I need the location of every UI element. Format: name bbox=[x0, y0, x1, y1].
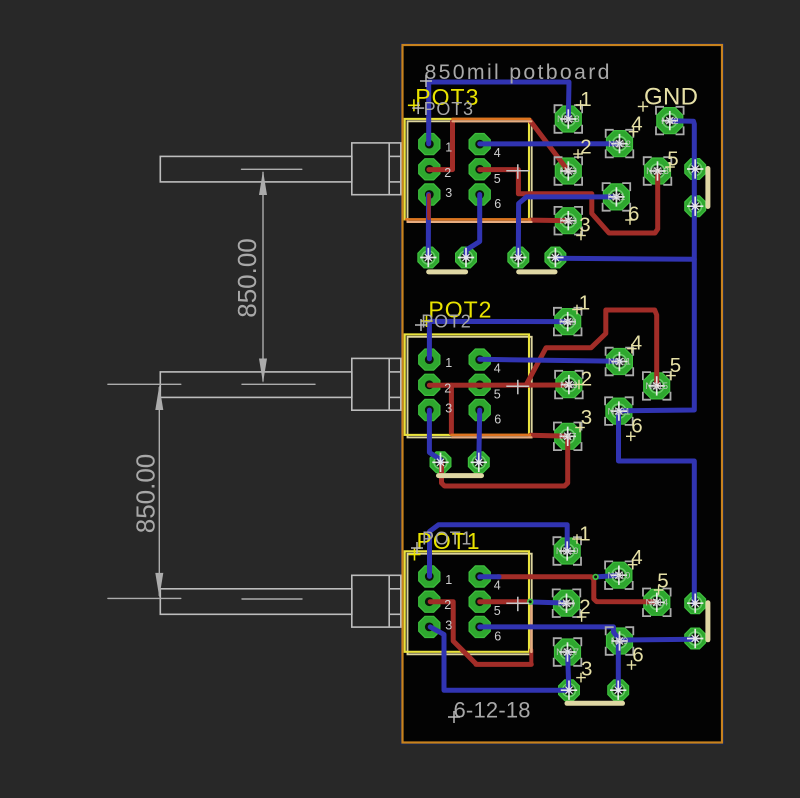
origin bracket POT1 pad 4 bbox=[605, 561, 633, 589]
wire blue POT1 pad3 to bottom pad A bbox=[430, 627, 569, 690]
drill cross POT2 pad 1 bbox=[560, 312, 576, 331]
POT2 pad 4 bbox=[469, 349, 490, 370]
dim2 extension line bottom bbox=[108, 597, 181, 599]
via at POT1 pad5 junction bbox=[527, 599, 533, 605]
POT1 right pad upper bbox=[685, 593, 706, 614]
svg-text:5: 5 bbox=[494, 387, 501, 401]
wire red POT1 bottom run bbox=[476, 662, 531, 667]
svg-text:N$3: N$3 bbox=[560, 380, 577, 391]
POT3 block wire pad 6 (N$1) bbox=[603, 184, 629, 210]
POT1 gray cross bbox=[411, 542, 423, 554]
svg-text:4: 4 bbox=[494, 579, 501, 593]
svg-text:GND: GND bbox=[644, 84, 698, 111]
svg-text:6: 6 bbox=[494, 629, 501, 643]
POT1 block wire pad 5 (N$14) bbox=[644, 589, 670, 615]
svg-text:POT1: POT1 bbox=[422, 529, 472, 549]
origin bracket POT3 pad 1 bbox=[555, 105, 583, 133]
label cross 1 (POT1) bbox=[572, 534, 582, 544]
dim1 extension line top (POT3 center mark) bbox=[242, 168, 302, 170]
origin bracket POT2 pad 5 bbox=[643, 372, 671, 400]
origin bracket POT1 pad 5 bbox=[643, 589, 671, 617]
POT3 bottom pad B bbox=[456, 247, 477, 268]
wire red POT3 to N$3-3 bbox=[531, 218, 569, 224]
origin bracket POT3 pad 3 bbox=[555, 207, 583, 235]
wire blue POT3 pad6 to bottom pad B bbox=[466, 195, 480, 258]
wire blue POT2 pad1 to N$8-1 bus bbox=[429, 321, 567, 359]
svg-text:POT3: POT3 bbox=[424, 99, 474, 119]
orange blend POT2 bottom edge bbox=[451, 434, 530, 437]
POT3 pad 4 bbox=[469, 134, 490, 155]
POT3 bushing inner line bbox=[388, 143, 390, 195]
drill cross POT1 bottom pad A bbox=[561, 681, 577, 700]
drill cross POT3 right pad upper bbox=[687, 159, 703, 178]
POT3 block wire pad 5 (N$13) bbox=[645, 158, 671, 184]
POT2 block wire pad 5 (N$15) bbox=[644, 373, 670, 399]
date origin cross bbox=[448, 711, 460, 723]
wire blue POT2 pad4 to N$21-4 bbox=[480, 359, 620, 361]
origin bracket POT2 pad 6 bbox=[605, 397, 633, 425]
salmon blend POT3 bottom edge bbox=[408, 221, 532, 223]
svg-text:N$2: N$2 bbox=[661, 116, 678, 127]
drill cross POT3 pad 6 bbox=[608, 187, 624, 206]
label cross 1 (POT2) bbox=[572, 305, 582, 315]
dim2 arrow up bbox=[155, 386, 163, 411]
drill cross POT3 bottom pad D bbox=[547, 248, 563, 267]
wire red POT2 to N$7-3 bbox=[531, 435, 568, 436]
POT1 block wire pad 1 (N$19) bbox=[554, 538, 580, 564]
POT3 pad 5 bbox=[469, 159, 490, 180]
salmon blend POT1 right edge bbox=[530, 602, 533, 652]
origin bracket POT1 pad 1 bbox=[553, 537, 581, 565]
jumper bar POT3 bottom pads A-B bbox=[429, 269, 466, 274]
label cross GND bbox=[638, 101, 648, 111]
wire red POT3 pad3 down (over blue) bbox=[427, 195, 431, 218]
drill cross POT3 pad 4 bbox=[611, 134, 627, 153]
POT3 yellow cross bbox=[408, 99, 420, 111]
orange blend POT3 top edge bbox=[453, 118, 531, 121]
drill cross POT2 pad 3 bbox=[560, 427, 576, 446]
POT2 bottom pad B bbox=[468, 452, 489, 473]
wire blue via to N$4-2 bbox=[532, 602, 565, 603]
svg-text:1: 1 bbox=[579, 291, 590, 314]
label cross 2 (POT2) bbox=[574, 380, 584, 390]
wire red POT1 pad4 to N$14-5 bbox=[498, 577, 655, 602]
drill cross POT3 right pad lower bbox=[687, 197, 703, 216]
svg-text:N$9: N$9 bbox=[611, 636, 628, 647]
POT3 bottom pad D bbox=[545, 247, 566, 268]
svg-text:1: 1 bbox=[445, 573, 452, 587]
POT1 block wire pad 4 (N$10) bbox=[606, 562, 632, 588]
POT3 block wire pad GND (N$2) bbox=[657, 108, 683, 134]
POT3 right pad upper bbox=[685, 159, 706, 180]
drill cross POT1 right pad lower bbox=[687, 629, 703, 648]
POT3 gray cross bbox=[412, 102, 424, 114]
jumper bar POT2 bottom pads bbox=[439, 473, 482, 478]
svg-text:2: 2 bbox=[580, 135, 591, 158]
dim1 arrow down bbox=[259, 359, 267, 384]
wire blue N$17-3 down to bottom pad A bbox=[568, 652, 569, 690]
board substrate bbox=[403, 45, 723, 743]
wire blue via to N$10-4 bbox=[597, 576, 617, 577]
drill cross POT2 pad 4 bbox=[611, 352, 627, 371]
svg-text:5: 5 bbox=[494, 172, 501, 186]
POT1 right pad lower bbox=[685, 628, 706, 649]
POT2 bushing shaft stubs bbox=[389, 372, 401, 398]
svg-text:850.00: 850.00 bbox=[232, 238, 262, 318]
POT1 pad 2 bbox=[419, 591, 440, 612]
jumper bar POT1 bottom pads bbox=[567, 701, 623, 706]
svg-text:N$21: N$21 bbox=[608, 406, 631, 417]
jumper bar POT3 bottom pads C-D bbox=[519, 269, 555, 274]
label cross 4 (POT2) bbox=[627, 344, 637, 354]
svg-text:N$3: N$3 bbox=[560, 216, 577, 227]
drill cross POT1 right pad upper bbox=[687, 594, 703, 613]
label cross 3 (POT2) bbox=[575, 423, 585, 433]
via at POT1 pad4 junction bbox=[592, 574, 598, 580]
svg-text:3: 3 bbox=[445, 402, 452, 416]
wire red POT3 pad5 to N$13-5 bbox=[480, 170, 658, 233]
label cross 6 (POT3) bbox=[625, 215, 635, 225]
drill cross POT2 pad 2 bbox=[561, 375, 577, 394]
POT3 block wire pad 3 (N$3) bbox=[555, 208, 581, 234]
label cross 2 (POT1) bbox=[577, 612, 587, 622]
svg-text:6-12-18: 6-12-18 bbox=[454, 698, 531, 723]
wire blue right bus down to N$21-6 bbox=[619, 259, 694, 411]
drill cross POT3 bottom pad A bbox=[420, 248, 436, 267]
POT2 block wire pad 4 (N$21) bbox=[606, 349, 632, 375]
svg-text:2: 2 bbox=[581, 367, 592, 390]
POT2 block wire pad 6 (N$21) bbox=[606, 398, 632, 424]
svg-text:4: 4 bbox=[494, 362, 501, 376]
svg-text:1: 1 bbox=[445, 356, 452, 370]
wire blue GND bus: N$2 pad right, down past right pads, left to bottom pad D bbox=[555, 121, 694, 259]
svg-text:2: 2 bbox=[444, 381, 451, 395]
svg-text:N$1: N$1 bbox=[608, 192, 625, 203]
svg-text:N$13: N$13 bbox=[646, 166, 669, 177]
svg-text:850mil potboard: 850mil potboard bbox=[425, 60, 612, 84]
label cross 1 (POT3) bbox=[576, 100, 586, 110]
label cross 4 (POT3) bbox=[629, 127, 639, 137]
wire blue POT1 pad6 to N$9-6 bbox=[480, 627, 620, 640]
svg-text:N$15: N$15 bbox=[645, 381, 668, 392]
wire blue POT3 pad4 to N$12-4 bbox=[480, 141, 620, 146]
drill cross POT2 pad 5 bbox=[649, 376, 665, 395]
wire blue bottom pad C to N$1-6 bbox=[518, 197, 616, 258]
drill cross POT1 pad 6 bbox=[611, 631, 627, 650]
POT3 right pad lower bbox=[685, 196, 706, 217]
drill cross POT1 pad 2 bbox=[558, 594, 574, 613]
POT3 bottom pad C bbox=[508, 247, 529, 268]
POT1 bushing shaft stubs bbox=[389, 589, 401, 615]
POT2 pad 3 bbox=[419, 399, 440, 420]
origin bracket POT2 pad 3 bbox=[554, 423, 582, 451]
POT1 tPlace box (yellow) bbox=[405, 551, 529, 652]
POT3 block wire pad 1 (N$13) bbox=[555, 106, 581, 132]
wire blue POT2 pad6 to bottom pad B bbox=[476, 410, 482, 462]
wire red POT2 pad2 down to box bottom bbox=[449, 385, 454, 433]
POT1 block wire pad 6 (N$9) bbox=[607, 628, 633, 654]
POT2 pad 6 bbox=[469, 399, 490, 420]
wire red POT2 pad5 to N$15-5 bbox=[526, 310, 657, 386]
POT2 pad 5 bbox=[469, 374, 490, 395]
POT1 block wire pad 3 (N$17) bbox=[555, 639, 581, 665]
svg-text:6: 6 bbox=[632, 643, 643, 666]
jumper bar POT3 right pads bbox=[705, 169, 710, 207]
POT1 package origin cross bbox=[506, 597, 529, 612]
svg-text:1: 1 bbox=[579, 522, 590, 545]
POT3 shaft outline bbox=[160, 156, 351, 182]
POT2 block wire pad 2 (N$3) bbox=[556, 372, 582, 398]
origin bracket POT2 pad 4 bbox=[606, 348, 634, 376]
POT3 bushing outline bbox=[352, 143, 401, 195]
svg-text:N$8: N$8 bbox=[559, 317, 576, 328]
POT3 tPlace box (yellow) bbox=[405, 119, 529, 219]
drill cross POT3 pad 2 bbox=[560, 161, 576, 180]
POT3 block wire pad 2 (N$3) bbox=[555, 158, 581, 184]
label cross 3 (POT1) bbox=[576, 673, 586, 683]
POT3 tDocu box (cream) bbox=[408, 121, 532, 222]
svg-text:3: 3 bbox=[445, 186, 452, 200]
label cross 6 (POT2) bbox=[626, 432, 636, 442]
wire red POT1 up to box bottom edge bbox=[529, 650, 533, 664]
drill cross POT3 bottom pad C bbox=[510, 248, 526, 267]
POT2 bottom pad A bbox=[430, 452, 451, 473]
POT2 block wire pad 3 (N$7) bbox=[555, 423, 581, 449]
drill cross POT3 pad GND bbox=[662, 111, 678, 130]
POT1 pad 4 bbox=[469, 566, 490, 587]
POT1 pad 5 bbox=[469, 591, 490, 612]
POT1 bottom pad B bbox=[608, 680, 629, 701]
svg-text:3: 3 bbox=[445, 618, 452, 632]
wire blue POT3 pad3 down to bottom pad A bbox=[426, 195, 431, 258]
svg-text:N$4: N$4 bbox=[558, 598, 575, 609]
drill cross POT3 pad 5 bbox=[649, 161, 665, 180]
label cross 6 (POT1) bbox=[627, 660, 637, 670]
POT3 pad 2 bbox=[419, 159, 440, 180]
drill cross POT2 pad 6 bbox=[611, 401, 627, 420]
wire blue POT1 pad4 stub bbox=[480, 574, 499, 579]
board outline shadow bbox=[401, 44, 723, 744]
POT1 shaft outline bbox=[160, 589, 351, 615]
POT1 bottom pad A bbox=[559, 680, 580, 701]
dim1 arrow up bbox=[259, 171, 267, 196]
origin bracket POT3 pad GND bbox=[656, 107, 684, 135]
drill cross POT3 pad 3 bbox=[560, 211, 576, 230]
POT2 bushing outline bbox=[352, 358, 401, 410]
origin bracket POT1 pad 3 bbox=[554, 638, 582, 666]
wire blue POT1 pad1 to N$19-1 bus bbox=[430, 525, 568, 577]
dim2 extension line top bbox=[108, 383, 181, 385]
title origin cross bbox=[420, 75, 432, 87]
svg-text:850.00: 850.00 bbox=[131, 454, 161, 534]
wire red POT2 N$7-3 to bottom pad A bbox=[442, 436, 568, 486]
svg-text:N$13: N$13 bbox=[557, 114, 580, 125]
wire red POT1 pad5 to via bbox=[480, 599, 528, 604]
dim1 line bbox=[262, 172, 264, 382]
svg-text:N$12: N$12 bbox=[608, 139, 631, 150]
POT1 pad 1 bbox=[419, 566, 440, 587]
POT2 block wire pad 1 (N$8) bbox=[555, 309, 581, 335]
wire blue POT2 pad3 to bottom pad A bbox=[429, 410, 440, 462]
label cross 5 (POT2) bbox=[666, 371, 676, 381]
wire red POT3 pad2 up to top edge bbox=[429, 122, 453, 170]
wire blue N$21-6 down and right bus to POT1 bbox=[619, 411, 695, 603]
POT2 tPlace box (yellow) bbox=[405, 334, 529, 435]
POT3 bottom pad A bbox=[418, 247, 439, 268]
POT2 bushing inner line bbox=[388, 358, 390, 410]
svg-text:POT2: POT2 bbox=[421, 312, 471, 332]
drill cross POT1 pad 1 bbox=[559, 541, 575, 560]
POT3 bushing shaft stubs bbox=[389, 156, 401, 182]
svg-text:N$3: N$3 bbox=[560, 166, 577, 177]
svg-text:4: 4 bbox=[494, 146, 501, 160]
dim2 line bbox=[158, 387, 160, 596]
POT1 bushing inner line bbox=[388, 575, 390, 627]
origin bracket POT3 pad 2 bbox=[555, 157, 583, 185]
svg-text:N$21: N$21 bbox=[608, 357, 631, 368]
drill cross POT3 pad 1 bbox=[560, 109, 576, 128]
wire red POT3 diagonal to N$3-2 bbox=[530, 121, 568, 172]
POT2 shaft outline bbox=[160, 372, 351, 398]
svg-text:2: 2 bbox=[444, 166, 451, 180]
drill cross POT2 bottom pad B bbox=[471, 453, 487, 472]
salmon blend POT3 top edge bbox=[453, 120, 532, 122]
origin bracket POT3 pad 5 bbox=[644, 157, 672, 185]
jumper bar POT1 right pads bbox=[705, 603, 710, 640]
dim1 extension line bottom (POT2 center mark) bbox=[242, 383, 315, 385]
svg-text:1: 1 bbox=[580, 88, 591, 111]
svg-text:1: 1 bbox=[445, 141, 452, 155]
POT1 yellow cross bbox=[409, 549, 421, 561]
POT2 tDocu box (cream) bbox=[408, 337, 532, 438]
POT1 bushing outline bbox=[352, 575, 401, 627]
orange blend POT3 bottom edge bbox=[406, 218, 530, 221]
drill cross POT1 pad 3 bbox=[559, 642, 575, 661]
POT2 gray cross bbox=[415, 319, 427, 331]
POT1 block wire pad 2 (N$4) bbox=[554, 590, 580, 616]
POT2 yellow cross bbox=[421, 315, 433, 327]
board outline (Dimension layer) bbox=[403, 45, 723, 743]
svg-text:6: 6 bbox=[631, 414, 642, 437]
label cross 2 (POT3) bbox=[573, 149, 583, 159]
drill cross POT2 bottom pad A bbox=[432, 453, 448, 472]
svg-text:5: 5 bbox=[494, 604, 501, 618]
POT3 pad 1 bbox=[419, 134, 440, 155]
svg-text:N$17: N$17 bbox=[556, 647, 579, 658]
origin bracket POT1 pad 6 bbox=[606, 627, 634, 655]
POT1 pad 3 bbox=[419, 616, 440, 637]
POT1 center mark bbox=[242, 598, 302, 600]
POT1 pad 6 bbox=[469, 616, 490, 637]
POT3 package origin cross bbox=[506, 164, 529, 179]
origin bracket POT3 pad 6 bbox=[603, 183, 631, 211]
svg-text:N$14: N$14 bbox=[645, 598, 668, 609]
POT2 pad 2 bbox=[419, 374, 440, 395]
svg-text:3: 3 bbox=[581, 406, 592, 429]
origin bracket POT2 pad 1 bbox=[554, 308, 582, 336]
wire red POT2 pad2-pad5 to N$3-2 bbox=[429, 383, 569, 388]
origin bracket POT2 pad 2 bbox=[555, 371, 583, 399]
POT3 pad 3 bbox=[419, 184, 440, 205]
POT3 block wire pad 4 (N$12) bbox=[607, 131, 633, 157]
POT3 pad 6 bbox=[469, 184, 490, 205]
wire blue POT3 pad1 to N$13-1 bus bbox=[429, 82, 569, 144]
label cross 3 (POT3) bbox=[576, 231, 586, 241]
wire blue N$9-6 down to bottom pad B bbox=[616, 641, 621, 690]
drill cross POT3 bottom pad B bbox=[458, 248, 474, 267]
salmon blend POT2 bottom edge bbox=[452, 436, 531, 438]
drill cross POT1 pad 5 bbox=[649, 593, 665, 612]
POT1 tDocu box (cream) bbox=[408, 554, 532, 655]
wire red POT1 pad2 down bbox=[430, 602, 476, 664]
label cross 4 (POT1) bbox=[628, 560, 638, 570]
drill cross POT1 bottom pad B bbox=[610, 681, 626, 700]
drill cross POT1 pad 4 bbox=[611, 566, 627, 585]
svg-text:6: 6 bbox=[494, 413, 501, 427]
svg-text:N$10: N$10 bbox=[608, 570, 631, 581]
label cross 5 (POT3) bbox=[665, 162, 675, 172]
origin bracket POT1 pad 2 bbox=[553, 589, 581, 617]
svg-text:3: 3 bbox=[581, 657, 592, 680]
POT2 package origin cross bbox=[506, 380, 529, 395]
dim2 arrow down bbox=[155, 573, 163, 598]
wire blue N$9-6 to right pad lower bbox=[620, 637, 696, 643]
svg-text:2: 2 bbox=[444, 598, 451, 612]
label cross 5 (POT1) bbox=[654, 585, 664, 595]
svg-text:6: 6 bbox=[494, 197, 501, 211]
svg-text:N$19: N$19 bbox=[556, 546, 579, 557]
svg-text:N$7: N$7 bbox=[559, 432, 576, 443]
POT2 pad 1 bbox=[419, 349, 440, 370]
origin bracket POT3 pad 4 bbox=[606, 130, 634, 158]
